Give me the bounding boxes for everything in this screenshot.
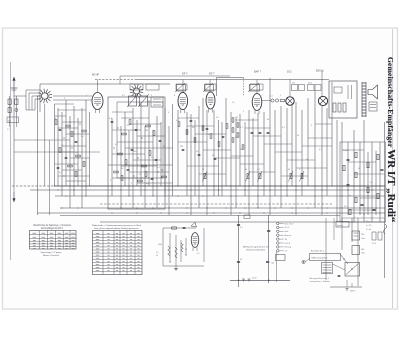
- svg-text:0,1: 0,1: [319, 149, 322, 151]
- svg-text:0,5: 0,5: [344, 206, 347, 208]
- svg-text:2M: 2M: [180, 146, 183, 148]
- svg-text:0,5: 0,5: [197, 253, 200, 255]
- svg-text:0,1: 0,1: [240, 127, 243, 129]
- svg-text:10: 10: [297, 135, 299, 137]
- svg-text:Ohm: Ohm: [361, 253, 365, 255]
- svg-text:Ohm: Ohm: [361, 238, 365, 240]
- svg-text:Anschluß für 2.: Anschluß für 2.: [311, 250, 325, 253]
- svg-text:2: 2: [280, 95, 281, 97]
- svg-text:400: 400: [292, 83, 295, 85]
- svg-text:Lautsprecher u. Zubehör: Lautsprecher u. Zubehör: [310, 280, 331, 283]
- svg-text:bzw. μF bei abgeschaltetem Net: bzw. μF bei abgeschaltetem Netzteil geme…: [95, 227, 140, 230]
- svg-text:des Empfängers bei 220 V: des Empfängers bei 220 V: [41, 227, 63, 230]
- svg-text:Netz 220 V: Netz 220 V: [285, 222, 295, 225]
- svg-text:4-polig: 4-polig: [337, 225, 343, 227]
- svg-text:2: 2: [151, 95, 152, 97]
- svg-text:0,1: 0,1: [370, 182, 373, 184]
- svg-text:0,1: 0,1: [270, 96, 273, 98]
- svg-text:0,5: 0,5: [122, 95, 125, 97]
- svg-text:2M: 2M: [75, 152, 78, 154]
- svg-text:Spannungen 7 V gegen: Spannungen 7 V gegen: [41, 252, 63, 254]
- svg-text:Meßwerte gemessen mit: Meßwerte gemessen mit: [243, 246, 269, 249]
- svg-text:50: 50: [245, 169, 247, 171]
- svg-text:0,1: 0,1: [240, 227, 243, 229]
- svg-text:4005: 4005: [308, 83, 312, 85]
- svg-text:50: 50: [202, 169, 204, 171]
- svg-text:50: 50: [358, 168, 360, 170]
- svg-text:3: 3: [64, 98, 65, 100]
- svg-text:0,1: 0,1: [156, 252, 159, 254]
- svg-text:Röhrenvoltmeter: Röhrenvoltmeter: [247, 249, 266, 252]
- svg-text:2: 2: [243, 111, 244, 113]
- svg-text:Heizung: Heizung: [285, 247, 292, 249]
- svg-text:1: 1: [259, 95, 260, 97]
- svg-text:BZO-1: BZO-1: [316, 69, 324, 73]
- svg-text:Mit angeschlossenem 2.: Mit angeschlossenem 2.: [310, 277, 330, 280]
- svg-text:NSB und Zubehör: NSB und Zubehör: [312, 258, 328, 260]
- svg-text:5000: 5000: [158, 244, 162, 246]
- svg-text:LS 4 Ω: LS 4 Ω: [285, 243, 291, 245]
- svg-text:DF 7: DF 7: [209, 72, 215, 76]
- svg-text:80 HF: 80 HF: [92, 73, 99, 77]
- svg-text:BAF 7: BAF 7: [254, 70, 262, 74]
- svg-text:220 V~: 220 V~: [350, 291, 357, 293]
- svg-text:0,1: 0,1: [257, 169, 260, 171]
- svg-text:50: 50: [288, 169, 290, 171]
- svg-text:50: 50: [235, 137, 237, 139]
- svg-text:Netz: Netz: [366, 220, 370, 223]
- svg-text:DF 7: DF 7: [182, 72, 188, 76]
- svg-text:2M: 2M: [145, 130, 148, 132]
- svg-text:2x600: 2x600: [343, 150, 348, 152]
- svg-text:200: 200: [361, 249, 364, 251]
- svg-text:1: 1: [86, 95, 87, 97]
- svg-text:8μ: 8μ: [363, 214, 365, 216]
- svg-text:4: 4: [168, 112, 169, 114]
- svg-text:Erde: Erde: [285, 231, 289, 233]
- svg-text:50: 50: [267, 119, 269, 121]
- svg-text:DCl: DCl: [287, 70, 292, 74]
- svg-text:Antenne: Antenne: [285, 234, 292, 237]
- svg-text:250: 250: [361, 234, 364, 236]
- svg-text:Übersicht über die Spannungs-: Übersicht über die Spannungs- u. Stromwe…: [33, 224, 72, 227]
- svg-text:0,1 μF: 0,1 μF: [366, 229, 371, 231]
- svg-text:Widerstands- u. Kondensatorwer: Widerstands- u. Kondensatorwerte (gemess…: [92, 224, 141, 227]
- svg-text:4μ: 4μ: [349, 195, 351, 197]
- svg-text:3: 3: [311, 125, 312, 127]
- svg-text:50: 50: [240, 259, 242, 261]
- svg-text:110 V: 110 V: [285, 227, 290, 229]
- svg-text:6: 6: [174, 95, 175, 97]
- svg-text:5k: 5k: [163, 146, 165, 148]
- svg-text:±0 V: ±0 V: [252, 277, 257, 279]
- svg-text:1k: 1k: [375, 151, 377, 153]
- svg-text:50: 50: [185, 249, 187, 251]
- svg-text:50: 50: [306, 159, 308, 161]
- svg-text:4 x 2 D: 4 x 2 D: [366, 225, 372, 227]
- svg-text:2M: 2M: [240, 149, 243, 151]
- svg-text:0,1: 0,1: [232, 102, 235, 104]
- svg-text:20: 20: [156, 255, 158, 257]
- svg-text:Gemeinschafts-Empfänger WR I/T: Gemeinschafts-Empfänger WR I/T „Rudi“: [385, 57, 397, 223]
- svg-text:Masse (Chassis): Masse (Chassis): [43, 255, 59, 257]
- svg-text:9: 9: [299, 169, 300, 171]
- svg-text:1M: 1M: [235, 117, 238, 119]
- svg-text:0,5: 0,5: [216, 117, 219, 119]
- svg-text:1 2: 1 2: [7, 129, 10, 131]
- svg-text:0,1: 0,1: [282, 127, 285, 129]
